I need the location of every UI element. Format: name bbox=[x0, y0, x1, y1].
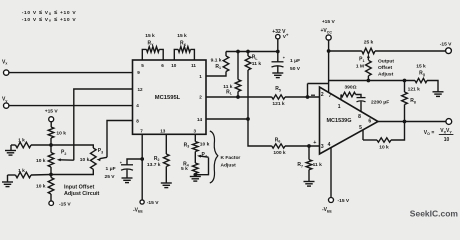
potentiometer P3 wiper arrow bbox=[100, 157, 108, 158]
node inverting input bbox=[306, 95, 310, 99]
node non-inverting input bbox=[307, 144, 311, 148]
svg-text:P4: P4 bbox=[202, 152, 207, 158]
svg-text:4: 4 bbox=[328, 142, 331, 148]
wire +32V rail bbox=[226, 51, 278, 53]
svg-text:R2: R2 bbox=[154, 156, 160, 162]
svg-text:VO =: VO = bbox=[424, 130, 435, 136]
wire C3 bottom lead (pin 8) bbox=[360, 101, 362, 111]
wire 25k rail left bbox=[329, 50, 362, 52]
svg-text:10 k: 10 k bbox=[379, 145, 389, 151]
wire 25k rail right bbox=[375, 50, 446, 52]
svg-text:Vx: Vx bbox=[2, 59, 7, 65]
wire R8 bottom lead bbox=[404, 105, 406, 122]
wire feedback right segment bbox=[391, 122, 405, 141]
brace K factor bbox=[210, 131, 218, 183]
ground 1k upper bbox=[5, 150, 16, 152]
svg-text:Input Offset: Input Offset bbox=[64, 185, 94, 191]
wire pin 5 stub bbox=[142, 49, 146, 60]
ground below R4 bbox=[190, 176, 201, 178]
svg-text:8: 8 bbox=[358, 114, 361, 120]
wire R7 bottom lead bbox=[308, 170, 310, 182]
svg-text:Output: Output bbox=[378, 58, 394, 64]
resistor P3 body 10k bbox=[91, 148, 97, 169]
wire pin 5 stub down bbox=[362, 130, 364, 140]
svg-text:13: 13 bbox=[160, 128, 166, 133]
svg-text:VXVY: VXVY bbox=[440, 128, 452, 134]
svg-text:K Factor: K Factor bbox=[221, 155, 241, 161]
svg-text:RL: RL bbox=[226, 89, 233, 95]
svg-text:MC1595L: MC1595L bbox=[155, 95, 181, 101]
svg-text:1 μF: 1 μF bbox=[106, 166, 116, 172]
svg-text:-15 V: -15 V bbox=[59, 201, 71, 207]
svg-text:R1: R1 bbox=[215, 64, 221, 70]
ground below RG bbox=[433, 91, 444, 93]
capacitor C3 2200uF bbox=[357, 97, 366, 99]
svg-text:Rg: Rg bbox=[419, 70, 425, 76]
svg-text:-VEE: -VEE bbox=[322, 207, 332, 213]
wire op-amp output bbox=[378, 121, 446, 123]
wire capacitor C1 top lead bbox=[277, 52, 279, 62]
wire pin 13 lead bbox=[165, 134, 167, 154]
wire feedback left segment bbox=[363, 139, 377, 141]
svg-text:1 M: 1 M bbox=[356, 63, 364, 69]
svg-text:+VCC: +VCC bbox=[321, 28, 333, 34]
terminal +Vcc bbox=[326, 35, 331, 40]
wire RL1 bottom lead bbox=[237, 92, 239, 98]
ground 1k lower bbox=[2, 181, 13, 183]
wire RL2 top lead bbox=[247, 52, 249, 57]
svg-text:1 k: 1 k bbox=[18, 168, 25, 174]
svg-text:10 k: 10 k bbox=[36, 184, 46, 190]
svg-text:10 k: 10 k bbox=[56, 130, 66, 136]
wire ground lead 1k lower bbox=[7, 175, 9, 182]
svg-text:50 V: 50 V bbox=[290, 66, 301, 72]
svg-text:+15 V: +15 V bbox=[45, 108, 59, 114]
resistor RY 15k bbox=[147, 47, 160, 53]
potentiometer P2 wiper arrow bbox=[60, 159, 74, 161]
svg-text:9.1 k: 9.1 k bbox=[211, 58, 222, 64]
resistor RL1 11k bbox=[235, 80, 241, 92]
svg-text:390Ω: 390Ω bbox=[344, 85, 356, 91]
svg-text:4: 4 bbox=[136, 103, 139, 108]
resistor R3 10k bbox=[193, 142, 199, 152]
svg-text:5 k: 5 k bbox=[181, 166, 188, 172]
node pin 7 / bypass capacitor bbox=[140, 157, 144, 161]
wire op-amp VEE lead bbox=[330, 148, 332, 198]
terminal -15V (right) bbox=[446, 48, 452, 54]
wire P2 body to node B bbox=[50, 167, 52, 178]
wire Vy to pin 4 bbox=[9, 105, 133, 107]
wire R5 to op-amp inverting input bbox=[285, 96, 320, 98]
svg-text:Adjust: Adjust bbox=[221, 163, 237, 169]
wire node A rail bbox=[11, 144, 16, 146]
svg-text:Adjust Circuit: Adjust Circuit bbox=[64, 191, 100, 197]
svg-text:14: 14 bbox=[197, 117, 203, 122]
svg-text:1 μF: 1 μF bbox=[290, 58, 300, 64]
ground below C2 bbox=[122, 177, 133, 179]
wire +32V terminal lead bbox=[277, 39, 279, 52]
svg-text:MC1539G: MC1539G bbox=[326, 118, 351, 124]
svg-text:-10 V ≤ VY ≤ +10 V: -10 V ≤ VY ≤ +10 V bbox=[22, 17, 77, 23]
svg-text:P3: P3 bbox=[98, 148, 103, 154]
terminal +15V (offset) bbox=[49, 117, 54, 122]
wire R4 bottom lead bbox=[194, 174, 196, 177]
wire R7 top lead bbox=[308, 146, 310, 160]
wire 1k to node B bbox=[31, 174, 51, 177]
potentiometer 25k bbox=[362, 48, 375, 54]
svg-text:-10 V ≤ VX ≤ +10 V: -10 V ≤ VX ≤ +10 V bbox=[22, 10, 77, 16]
wire R8 top lead bbox=[404, 81, 406, 93]
node A bbox=[49, 143, 53, 147]
svg-text:2: 2 bbox=[321, 92, 324, 98]
terminal -15V (offset) bbox=[49, 201, 54, 206]
svg-text:11 k: 11 k bbox=[313, 162, 323, 168]
terminal Vy bbox=[3, 103, 8, 108]
svg-text:3: 3 bbox=[194, 128, 197, 133]
resistor 1k upper bbox=[16, 142, 32, 148]
svg-text:10 k: 10 k bbox=[200, 142, 210, 148]
svg-text:Offset: Offset bbox=[378, 65, 393, 71]
node RL1 to pin 2 line bbox=[236, 95, 240, 99]
wire pin 10 stub bbox=[174, 49, 178, 60]
node RL1 top bbox=[236, 50, 240, 54]
ground below C1 bbox=[272, 72, 283, 74]
svg-text:10 k: 10 k bbox=[80, 157, 90, 163]
wire node B to P3 bottom bbox=[51, 169, 93, 174]
svg-text:2: 2 bbox=[199, 95, 202, 100]
svg-text:R7: R7 bbox=[297, 162, 303, 168]
svg-text:+: + bbox=[313, 140, 316, 146]
terminal -15V (op-amp VEE) bbox=[329, 198, 334, 203]
svg-text:-15 V: -15 V bbox=[147, 200, 159, 206]
node output junction bbox=[403, 120, 407, 124]
svg-text:15 k: 15 k bbox=[145, 33, 155, 39]
svg-text:5: 5 bbox=[141, 63, 144, 68]
wire node B rail bbox=[8, 174, 16, 176]
svg-text:RY: RY bbox=[147, 41, 154, 47]
terminal -15V (U1 VEE) bbox=[140, 200, 144, 204]
terminal Vo bbox=[446, 119, 452, 125]
svg-text:9: 9 bbox=[137, 70, 140, 75]
svg-text:2200 μF: 2200 μF bbox=[371, 99, 389, 105]
capacitor C2 1uF 25V bbox=[121, 164, 133, 166]
resistor RL2 11k bbox=[245, 56, 251, 70]
wire summing bus right bbox=[329, 80, 416, 82]
svg-text:8: 8 bbox=[136, 118, 139, 123]
resistor R1 9.1k bbox=[223, 56, 229, 72]
wire bypass capacitor branch bbox=[127, 159, 142, 165]
wire R6 to op-amp non-inverting input bbox=[285, 145, 320, 147]
terminal Vx bbox=[3, 70, 8, 75]
node +32V rail / capacitor bbox=[276, 50, 280, 54]
svg-text:7: 7 bbox=[140, 128, 143, 133]
node pin 14 junction bbox=[246, 117, 250, 121]
IC U1 MC1595L body bbox=[133, 60, 207, 134]
wire pin 12 to P2 wiper bbox=[74, 89, 133, 160]
node RL2 top bbox=[246, 50, 250, 54]
svg-text:1: 1 bbox=[338, 104, 341, 110]
node R8 top bbox=[403, 79, 407, 83]
svg-text:11 k: 11 k bbox=[252, 61, 262, 67]
wire pin 8 to P3 wiper bbox=[107, 121, 133, 158]
resistor RG 15k bbox=[415, 78, 427, 82]
resistor R7 11k bbox=[306, 160, 312, 170]
wire 390 ohm right lead bbox=[356, 95, 361, 98]
svg-text:P1: P1 bbox=[359, 57, 364, 63]
svg-text:Vy: Vy bbox=[2, 97, 7, 103]
wire pin 6 stub bbox=[159, 49, 163, 60]
wire pin 3 lead bbox=[194, 134, 196, 141]
wire ground lead 1k upper bbox=[10, 145, 12, 151]
svg-text:12: 12 bbox=[137, 87, 143, 92]
svg-text:-15 V: -15 V bbox=[338, 198, 350, 204]
svg-text:25 k: 25 k bbox=[364, 40, 374, 46]
resistor P2 body 10k bbox=[48, 153, 54, 168]
wire +15V to 10k bbox=[50, 122, 52, 127]
node +Vcc rail bbox=[327, 49, 331, 53]
wire +Vcc down to top slope bbox=[328, 40, 330, 92]
svg-text:R6: R6 bbox=[275, 137, 281, 143]
svg-text:6: 6 bbox=[368, 119, 371, 125]
svg-text:5: 5 bbox=[359, 125, 362, 131]
svg-text:R8: R8 bbox=[410, 98, 416, 104]
wire R3-R4 junction bbox=[194, 152, 196, 164]
resistor feedback 10k bbox=[377, 138, 391, 142]
op-amp minus sign bbox=[311, 94, 315, 96]
wire 390 ohm left lead (pin 1) bbox=[340, 95, 342, 101]
ground below R7 bbox=[304, 181, 315, 183]
wire RL2 down to pin 14 bbox=[247, 70, 249, 119]
wire node A to P3 top bbox=[51, 145, 93, 148]
svg-text:100 k: 100 k bbox=[273, 150, 286, 156]
wire 10k to node A bbox=[50, 138, 52, 153]
svg-text:7: 7 bbox=[329, 93, 332, 99]
resistor RX 15k bbox=[178, 47, 190, 53]
wire C2 bottom lead bbox=[126, 170, 128, 178]
svg-text:15 k: 15 k bbox=[177, 33, 187, 39]
svg-text:121 k: 121 k bbox=[408, 87, 421, 93]
op-amp U2 MC1539G bbox=[320, 87, 379, 154]
svg-text:6: 6 bbox=[161, 63, 164, 68]
resistor R8 121k bbox=[402, 92, 408, 105]
wire summing node vertical bbox=[307, 84, 309, 98]
wire to -15V terminal bbox=[50, 194, 52, 201]
svg-text:15 k: 15 k bbox=[416, 63, 426, 69]
svg-text:11: 11 bbox=[191, 63, 196, 68]
resistor R6 100k bbox=[272, 144, 285, 148]
svg-text:RL: RL bbox=[252, 55, 259, 61]
node B bbox=[49, 173, 53, 177]
resistor 1k lower bbox=[16, 172, 32, 178]
svg-text:121 k: 121 k bbox=[272, 101, 285, 107]
wire pin 14 down and right to R6 bbox=[248, 119, 272, 146]
wire pin 1 stub bbox=[206, 72, 226, 77]
resistor 10k upper (offset) bbox=[48, 127, 54, 138]
svg-text:3: 3 bbox=[321, 144, 324, 150]
capacitor C1 1uF 50V bbox=[272, 61, 284, 63]
wire capacitor C1 bottom lead bbox=[277, 66, 279, 73]
wire R1 to +32V rail bbox=[225, 52, 227, 57]
wire RL1 top lead bbox=[237, 52, 239, 80]
wire 1k to node A bbox=[31, 144, 51, 146]
svg-text:10: 10 bbox=[171, 63, 177, 68]
resistor P1 1M bbox=[366, 60, 372, 76]
wire P1 to summing bus bbox=[367, 76, 369, 81]
wire summing node horizontal left bbox=[308, 83, 329, 85]
wire pin 11 stub bbox=[191, 49, 195, 60]
svg-text:+15 V: +15 V bbox=[322, 19, 336, 25]
potentiometer P4 wiper loop bbox=[195, 158, 208, 175]
wire Vx to pin 9 bbox=[9, 72, 133, 74]
svg-text:P2: P2 bbox=[61, 150, 66, 156]
wire pin 14 stub bbox=[206, 118, 248, 120]
svg-text:1: 1 bbox=[199, 74, 202, 79]
svg-text:25 V: 25 V bbox=[105, 174, 116, 180]
resistor 10k lower (offset) bbox=[48, 178, 54, 195]
resistor R4 5k bbox=[193, 163, 199, 174]
svg-text:13.7 k: 13.7 k bbox=[147, 162, 161, 168]
svg-text:10: 10 bbox=[444, 137, 450, 143]
wire R2 bottom lead bbox=[165, 167, 167, 184]
wire RG to ground bbox=[427, 81, 438, 92]
svg-text:SeekIC.com: SeekIC.com bbox=[410, 208, 459, 218]
resistor 390 ohm bbox=[341, 92, 356, 97]
terminal +32V bbox=[276, 35, 280, 39]
ground below R2 bbox=[161, 182, 172, 184]
svg-text:10 k: 10 k bbox=[36, 158, 46, 164]
svg-text:Adjust: Adjust bbox=[378, 71, 394, 77]
svg-text:RX: RX bbox=[180, 41, 187, 47]
svg-text:R5: R5 bbox=[275, 86, 281, 92]
svg-text:-VEE: -VEE bbox=[133, 207, 143, 213]
wire pin 2 to R5 bbox=[206, 96, 272, 98]
resistor R5 121k bbox=[272, 95, 285, 99]
svg-text:R3: R3 bbox=[184, 142, 190, 148]
svg-text:1 k: 1 k bbox=[18, 137, 25, 143]
potentiometer 25k wiper arrow bbox=[367, 57, 369, 60]
node P1 bottom bbox=[367, 79, 371, 83]
svg-text:-15 V: -15 V bbox=[440, 41, 452, 47]
svg-text:+32 V: +32 V bbox=[272, 29, 286, 35]
resistor R2 13.7k bbox=[164, 154, 170, 167]
wire pin 7 to -VEE bbox=[141, 134, 143, 200]
node R4 bottom / P4 return bbox=[193, 173, 197, 177]
svg-text:+: + bbox=[283, 56, 286, 60]
